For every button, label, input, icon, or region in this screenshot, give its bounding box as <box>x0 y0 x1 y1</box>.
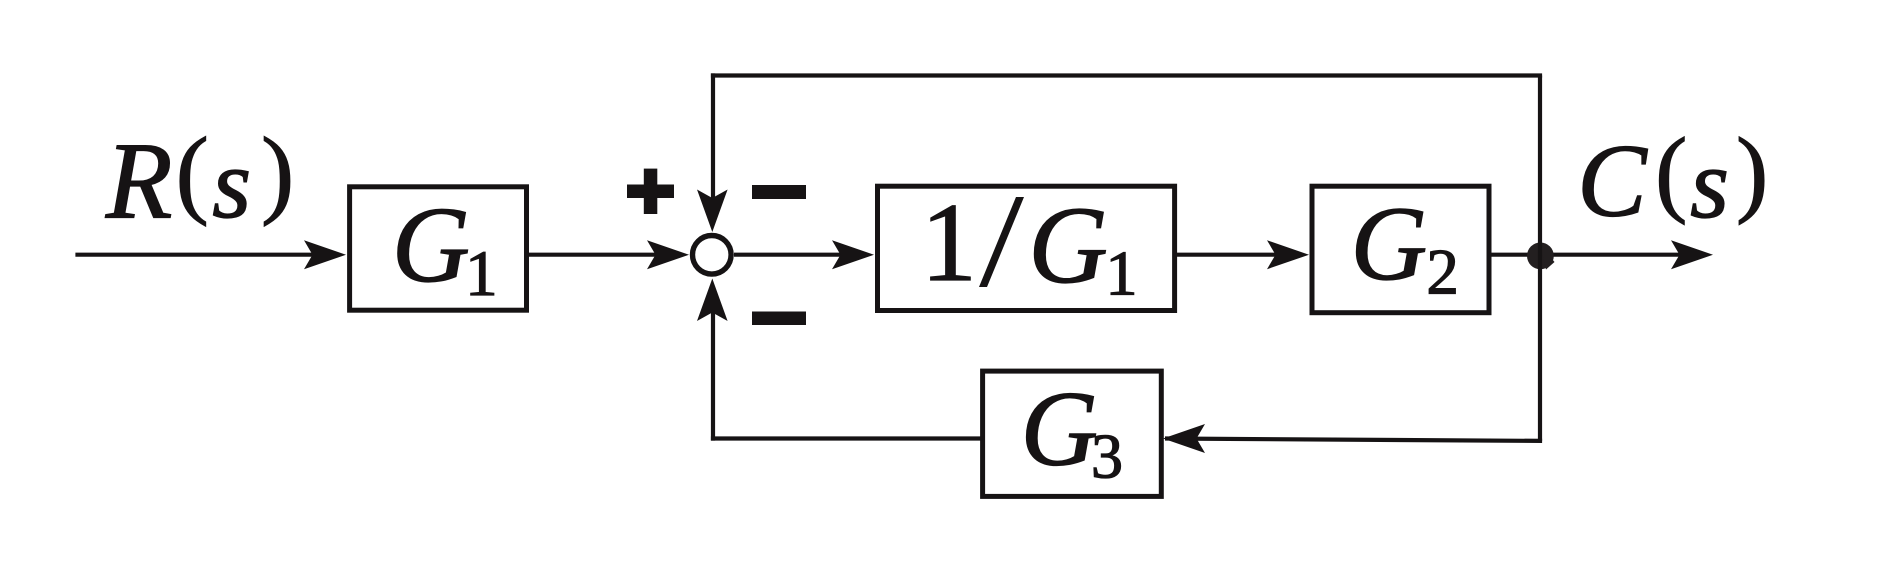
wire node down (bottom feedback vertical right) <box>1538 255 1542 441</box>
minus sign top <box>752 185 806 199</box>
arrow into G3 <box>1163 424 1205 453</box>
svg-text:(: ( <box>176 118 209 227</box>
svg-text:(: ( <box>1655 118 1687 225</box>
wire node up (top feedback vertical right) <box>1538 76 1542 256</box>
arrow into G2 <box>1267 240 1309 269</box>
svg-text:1: 1 <box>465 238 498 310</box>
arrow into summing junction from bottom <box>697 279 728 322</box>
svg-text:2: 2 <box>1426 237 1459 309</box>
svg-text:1: 1 <box>921 181 977 305</box>
wire 1/G1 to G2 <box>1175 253 1284 257</box>
svg-text:R: R <box>105 121 173 242</box>
svg-text:): ) <box>261 118 294 227</box>
label R(s) <box>105 118 294 242</box>
wire G1 to summing junction <box>527 253 663 257</box>
wire summing junction to 1/G1 <box>734 253 848 257</box>
block 1/G1 <box>878 181 1175 311</box>
arrow into 1/G1 <box>832 240 874 269</box>
block G3 <box>983 371 1162 497</box>
wire bottom feedback right segment <box>1165 439 1542 441</box>
svg-text:G: G <box>1351 185 1428 302</box>
wire top feedback horizontal <box>711 73 1542 77</box>
minus sign bottom <box>752 312 806 326</box>
svg-text:s: s <box>1690 128 1729 239</box>
wire input <box>75 253 320 257</box>
wire G3 to left vertical <box>711 436 983 440</box>
svg-text:C: C <box>1577 124 1648 239</box>
arrow into summing junction from top <box>697 190 728 233</box>
wire G2 to output <box>1489 253 1688 257</box>
label C(s) <box>1577 118 1768 239</box>
node (takeoff point) <box>1527 243 1555 270</box>
svg-text:s: s <box>212 128 251 239</box>
wire top feedback vertical left <box>711 73 715 200</box>
summing junction <box>693 236 732 275</box>
svg-text:3: 3 <box>1091 421 1123 492</box>
svg-text:G: G <box>392 186 470 305</box>
output arrow <box>1671 240 1713 269</box>
svg-text:1: 1 <box>1106 238 1138 309</box>
svg-text:G: G <box>1021 371 1098 489</box>
block G2 <box>1312 185 1489 313</box>
arrow into G1 <box>304 240 346 269</box>
svg-text:G: G <box>1028 184 1107 306</box>
wire bottom feedback vertical left <box>711 310 715 441</box>
arrow into summing junction from left <box>647 240 689 269</box>
plus sign <box>627 169 674 214</box>
block G1 <box>350 186 527 310</box>
svg-text:): ) <box>1736 118 1768 225</box>
